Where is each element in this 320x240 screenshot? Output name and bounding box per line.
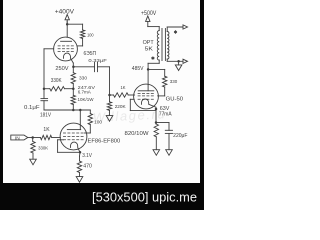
svg-text:77mA: 77mA bbox=[159, 111, 172, 117]
svg-text:330K: 330K bbox=[38, 146, 49, 152]
svg-text:0.1μF: 0.1μF bbox=[24, 105, 40, 111]
svg-text:1K: 1K bbox=[121, 85, 127, 91]
svg-text:220μF: 220μF bbox=[173, 133, 187, 139]
svg-text:330: 330 bbox=[170, 79, 178, 85]
svg-text:3.1V: 3.1V bbox=[82, 153, 92, 159]
svg-text:IN: IN bbox=[15, 135, 20, 141]
svg-text:EF86-EF800: EF86-EF800 bbox=[88, 138, 121, 144]
svg-text:6Э5П: 6Э5П bbox=[84, 51, 97, 57]
svg-text:OPT: OPT bbox=[143, 40, 155, 46]
svg-text:+400V: +400V bbox=[55, 9, 74, 15]
svg-text:10K/1W: 10K/1W bbox=[78, 97, 94, 103]
svg-text:6.7mA: 6.7mA bbox=[78, 89, 92, 95]
svg-text:470: 470 bbox=[83, 163, 92, 169]
svg-text:1K: 1K bbox=[43, 127, 50, 133]
svg-text:220K: 220K bbox=[115, 104, 127, 110]
svg-text:485V: 485V bbox=[132, 66, 144, 72]
svg-text:330: 330 bbox=[79, 75, 87, 81]
svg-text:+500V: +500V bbox=[141, 11, 156, 17]
svg-text:[530x500] upic.me: [530x500] upic.me bbox=[92, 190, 197, 205]
svg-text:181V: 181V bbox=[40, 113, 51, 119]
svg-text:250V: 250V bbox=[55, 66, 69, 72]
svg-text:5K: 5K bbox=[145, 46, 154, 52]
svg-text:820/10W: 820/10W bbox=[125, 131, 149, 137]
svg-text:330K: 330K bbox=[51, 78, 62, 84]
svg-text:100: 100 bbox=[94, 119, 102, 125]
svg-text:0.33μF: 0.33μF bbox=[88, 58, 106, 64]
svg-text:100: 100 bbox=[87, 33, 94, 39]
svg-text:GU-50: GU-50 bbox=[166, 97, 183, 103]
